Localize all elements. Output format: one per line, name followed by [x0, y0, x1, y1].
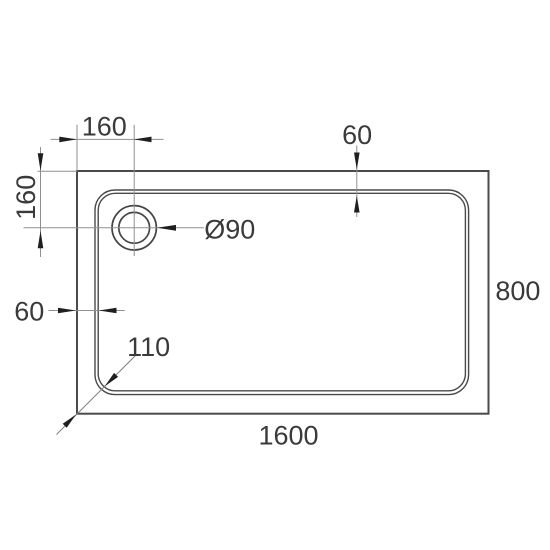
arrowhead 160 top right: [134, 137, 152, 143]
arrowhead 60 left pointing left: [99, 308, 117, 314]
svg-text:110: 110: [127, 332, 170, 362]
label 800: [495, 276, 540, 306]
arrowhead 160 left top: [38, 153, 44, 171]
arrowhead 160 top left: [59, 137, 77, 143]
label 160 left (rotated): [11, 175, 41, 220]
arrowhead ø90 leader: [157, 225, 176, 231]
svg-text:Ø90: Ø90: [204, 214, 255, 244]
label 60 top: [342, 120, 372, 150]
drain horizontal centerline / ø90 leader: [24, 227, 205, 229]
leader line 110 (corner radius): [57, 356, 136, 435]
label ø90: [204, 214, 255, 244]
tray outer edge rectangle: [77, 171, 489, 414]
tray inner rim inner line: [98, 193, 465, 390]
svg-text:60: 60: [342, 120, 372, 150]
arrowhead 110 at outer corner: [63, 415, 76, 428]
drain outer circle: [112, 206, 156, 250]
dimension line 160 top: [51, 138, 164, 140]
svg-text:60: 60: [14, 297, 44, 327]
dimension line 60 left: [49, 310, 125, 312]
arrowhead 110 at corner arc: [105, 373, 118, 386]
extension line left edge (top 160): [76, 125, 78, 171]
arrowhead 60 top up: [354, 196, 360, 213]
svg-text:160: 160: [82, 112, 127, 142]
label 1600: [258, 421, 318, 451]
extension line top edge (left 160): [38, 170, 78, 172]
drain vertical centerline / extension line: [133, 125, 135, 256]
dimension line 60 top: [356, 146, 358, 218]
label 60 left: [14, 297, 44, 327]
svg-text:160: 160: [11, 175, 41, 220]
dimension line 160 left: [40, 147, 42, 257]
arrowhead 160 left bottom: [38, 231, 44, 249]
drain inner circle: [119, 212, 150, 243]
label 160 top: [82, 112, 127, 142]
arrowhead 60 top down: [354, 153, 360, 170]
arrowhead 60 left pointing right: [58, 308, 76, 314]
label 110: [127, 332, 170, 362]
tray inner rim outer line: [95, 190, 469, 395]
svg-text:1600: 1600: [258, 421, 318, 451]
svg-text:800: 800: [495, 276, 540, 306]
